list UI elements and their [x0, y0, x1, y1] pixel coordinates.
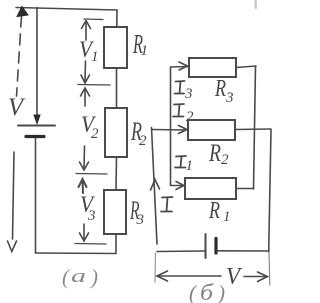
wire bottom right (circuit b): [217, 250, 269, 252]
svg-text:1: 1: [186, 158, 194, 174]
label V (circuit a): [8, 94, 26, 121]
wire R3 right to conductor: [236, 66, 256, 68]
V2 up arrow: [84, 89, 86, 107]
battery long plate (circuit b): [205, 234, 207, 258]
arrowhead down (open) of V arrow: [8, 241, 17, 252]
V dimension arrow left head: [157, 271, 168, 281]
label R1 (circuit b): [208, 198, 230, 225]
arrowhead up (filled) of V arrow: [17, 7, 28, 17]
wire left upper of circuit (a): [36, 8, 38, 119]
svg-text:2: 2: [221, 152, 229, 168]
inner left conductor (R3 to R1 branches): [170, 67, 172, 184]
svg-text:3: 3: [225, 90, 234, 106]
V1 up arrow: [85, 21, 87, 40]
label R1 (circuit a): [132, 29, 148, 59]
wire R1 right to conductor A: [237, 188, 254, 190]
V dimension arrow right head: [258, 272, 268, 282]
label I3: [175, 81, 193, 102]
node tick between R1 and R2: [78, 84, 110, 87]
resistor R2 (circuit b): [188, 120, 235, 140]
arrowhead on R1 branch: [176, 182, 184, 190]
V dimension line right: [244, 276, 266, 278]
resistor R3 (circuit b): [189, 58, 236, 77]
wire bottom left (circuit b): [157, 250, 205, 253]
wire R3 to bottom: [115, 234, 117, 253]
svg-text:1: 1: [91, 49, 99, 65]
svg-text:): ): [217, 281, 225, 303]
arrowhead on R2 branch: [179, 126, 188, 134]
faint conductor B extension below wire: [268, 252, 271, 285]
resistor R3 (circuit a): [104, 190, 126, 234]
node tick between R2 and R3: [76, 173, 107, 176]
label R3 (circuit b): [214, 76, 233, 106]
label V2: [81, 112, 99, 142]
label I (manual strokes): [161, 197, 173, 212]
V dimension line left: [157, 275, 221, 277]
wire R1 branch: [171, 184, 186, 186]
V3 down arrow: [83, 224, 85, 240]
battery B1 short plate (circuit a): [26, 135, 44, 138]
label V3: [80, 192, 96, 224]
V overall dashed arrow (circuit a): [17, 16, 22, 96]
label (b): [189, 280, 225, 303]
svg-text:3: 3: [184, 86, 193, 102]
svg-text:2: 2: [139, 133, 147, 149]
V3 up arrow: [82, 180, 85, 193]
svg-text:a: a: [71, 266, 86, 287]
svg-text:): ): [90, 265, 98, 289]
label R3 (circuit a): [129, 196, 144, 228]
wire right drop to R1: [116, 10, 118, 27]
svg-text:R: R: [208, 198, 220, 224]
label (a): [62, 265, 98, 289]
wire R1 to R2: [116, 68, 118, 108]
svg-text:R: R: [214, 76, 226, 102]
main left conductor (circuit b): [152, 128, 158, 245]
V1 down arrow: [84, 61, 87, 82]
arrowhead up (I) on main conductor: [151, 180, 160, 191]
label I1: [175, 156, 193, 174]
label I2: [173, 104, 194, 125]
resistor R1 (circuit b): [185, 178, 236, 199]
wire left lower of circuit (a): [35, 137, 37, 253]
right conductor A: [254, 66, 256, 189]
svg-text:V: V: [226, 264, 242, 290]
resistor R1 (circuit a): [104, 27, 127, 68]
wire bottom of circuit (a): [36, 252, 117, 255]
svg-text:3: 3: [87, 208, 96, 224]
right conductor B down to bottom: [269, 130, 271, 252]
stray mark top right: [254, 0, 257, 8]
label R2 (circuit b): [208, 140, 229, 168]
svg-text:3: 3: [136, 212, 145, 228]
arrowhead down on left wire at battery: [34, 115, 40, 124]
wire R2 right extension: [235, 128, 271, 131]
wire R2 to R3: [115, 157, 118, 190]
wire top of circuit (a): [16, 8, 117, 11]
label V (circuit b): [226, 264, 242, 290]
svg-text:R: R: [208, 140, 221, 167]
svg-text:1: 1: [141, 43, 149, 59]
node tick bottom (V3 lower): [75, 243, 106, 246]
label R2 (circuit a): [130, 117, 147, 149]
label V1: [79, 37, 99, 65]
V2 down arrow: [83, 146, 86, 169]
node tick top (V1 upper): [84, 18, 103, 21]
arrowhead on R3 branch: [179, 62, 188, 70]
resistor R2 (circuit a): [105, 108, 127, 157]
svg-text:2: 2: [91, 126, 99, 142]
faint left conductor extension below wire: [154, 253, 157, 282]
svg-text:б: б: [200, 280, 215, 303]
battery B1 long plate (circuit a): [18, 125, 55, 127]
wire R2 branch: [152, 129, 189, 132]
wire R3 branch: [171, 66, 190, 69]
svg-text:1: 1: [223, 209, 231, 225]
battery short plate (circuit b): [214, 239, 217, 254]
